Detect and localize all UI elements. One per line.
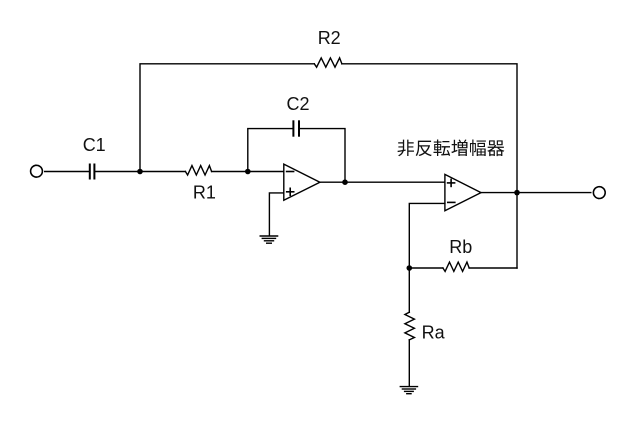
svg-text:R2: R2	[318, 28, 341, 48]
svg-text:Ra: Ra	[422, 323, 446, 343]
svg-text:C1: C1	[83, 135, 106, 155]
svg-text:R1: R1	[193, 183, 216, 203]
svg-text:C2: C2	[286, 94, 309, 114]
svg-text:Rb: Rb	[449, 237, 472, 257]
